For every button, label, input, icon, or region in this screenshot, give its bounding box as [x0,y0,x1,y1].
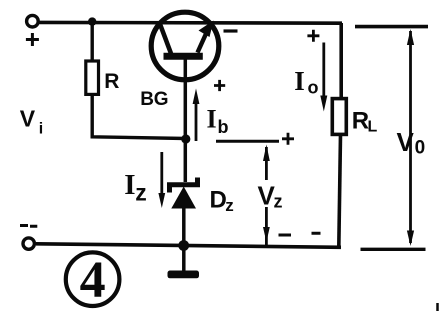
wire base lead [184,56,188,182]
wire to resistor R [90,22,93,63]
plus sign Vz [282,133,294,145]
svg-text:V: V [20,105,36,131]
wire bottom rail [36,244,341,248]
svg-text:o: o [308,78,319,98]
svg-text:I: I [207,105,217,134]
Vo bottom reference bar [361,248,426,251]
svg-text:BG: BG [140,89,168,110]
arrow Vz dimension [265,147,268,246]
wire right drop from top rail [339,23,343,99]
svg-text:4: 4 [80,252,106,309]
node bottom junction [178,240,189,251]
resistor R [86,61,99,94]
svg-text:I: I [124,169,135,201]
arrow Iz [160,152,163,194]
plus sign input top [26,33,39,46]
plus sign Io [307,30,319,42]
label Io [294,66,318,98]
terminal input + [27,15,39,27]
transistor Q1 circle [151,12,219,80]
svg-text:V: V [397,127,415,157]
label Dz [210,186,234,215]
ground bar [168,271,200,279]
svg-text:I: I [294,66,305,96]
svg-text:z: z [274,192,283,212]
minus dashes Vz [279,233,321,235]
transistor emitter arrowhead [199,21,214,38]
minus sign emitter [224,29,238,32]
figure number circle [66,252,120,306]
label RL [352,108,378,136]
svg-text:0: 0 [415,138,426,159]
svg-text:i: i [39,121,43,138]
wire zener to bottom node [182,208,186,246]
svg-text:z: z [225,196,234,215]
label Ib [207,105,229,137]
node junction top (R tap) [88,17,96,25]
label Vi [20,105,43,137]
label Iz [124,169,146,205]
svg-text:R: R [104,70,119,93]
zener diode Dz triangle [171,187,196,209]
resistor RL [332,99,346,135]
svg-text:b: b [218,117,229,137]
Vz reference line [216,140,279,143]
svg-text:L: L [368,119,378,136]
svg-text:z: z [135,179,147,205]
wire RL to bottom rail [339,135,341,248]
zener diode Dz cathode Z-bar [170,178,198,193]
transistor collector lead [160,24,171,54]
Vo top reference bar [355,25,428,29]
label Vz [258,180,283,211]
label Vo [397,127,426,159]
svg-text:D: D [210,186,227,213]
node base junction [181,134,190,143]
plus sign base [214,80,225,91]
transistor emitter lead [198,24,211,53]
wire R to base node [92,94,186,139]
terminal input - [23,238,34,249]
transistor base bar [164,53,203,60]
minus sign input bottom [20,224,37,228]
arrow Vo dimension [409,31,412,243]
edge speck [436,303,439,311]
wire top rail [38,21,342,25]
arrow Io [322,43,325,98]
arrow Ib [195,103,198,141]
ground stem [182,246,186,272]
